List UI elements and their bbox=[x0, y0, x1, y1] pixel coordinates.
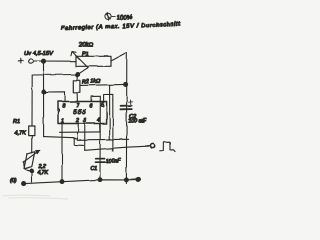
plus terminal sign bbox=[18, 58, 23, 63]
pin1 wire to ground bbox=[61, 124, 63, 182]
wire H1 pin2 bus bbox=[60, 131, 101, 133]
resistor R1 body bbox=[29, 126, 35, 136]
pin3 wire down bbox=[84, 124, 86, 151]
trimmer wiper tie curve bbox=[24, 162, 32, 172]
wire R1 to trimmer bbox=[31, 136, 33, 153]
pin5 rail down bbox=[112, 94, 114, 151]
wire output run bbox=[85, 146, 151, 150]
ground rail end dot bbox=[136, 177, 140, 181]
svg-text:6: 6 bbox=[90, 104, 93, 110]
node trimmer junction bbox=[30, 169, 34, 173]
svg-text:4: 4 bbox=[97, 118, 100, 124]
node ground-C2 junction bbox=[125, 178, 129, 182]
output terminal circle bbox=[151, 144, 155, 148]
wire R2 node to right rail bbox=[81, 84, 126, 85]
svg-text:100nF: 100nF bbox=[106, 159, 122, 165]
wire H2 lower bus bbox=[76, 132, 78, 139]
ground terminal dot bbox=[22, 182, 26, 186]
svg-text:4,7K: 4,7K bbox=[38, 170, 49, 176]
capacitor C2 plus mark bbox=[129, 100, 133, 104]
wire wiper node left bbox=[32, 74, 77, 77]
wire + to pot bbox=[33, 60, 76, 62]
svg-text:555: 555 bbox=[73, 109, 86, 116]
potentiometer wiper arrow bbox=[71, 52, 88, 68]
svg-text:8: 8 bbox=[63, 104, 66, 110]
node A junction bbox=[42, 59, 46, 63]
wire R2 to pin7 bbox=[76, 92, 78, 101]
svg-text:20kΩ: 20kΩ bbox=[78, 43, 94, 49]
wire trimmer to ground rail bbox=[31, 171, 33, 182]
svg-text:100%: 100% bbox=[116, 14, 133, 22]
capacitor C1 plates bbox=[96, 159, 105, 163]
node D junction on right rail bbox=[124, 82, 128, 86]
node ground-pin1 junction bbox=[60, 180, 64, 184]
svg-text:5: 5 bbox=[101, 103, 104, 109]
wire discharge rail down bbox=[109, 85, 111, 140]
wire left rail R1 branch down bbox=[31, 75, 33, 126]
pin6 tick and elbow to C1 rail bbox=[92, 96, 101, 101]
resistor R2 body bbox=[73, 80, 80, 92]
wire Vcc rail elbow to lower bus bbox=[44, 137, 77, 139]
node C wiper junction bbox=[76, 73, 80, 77]
wire node C to R2 bbox=[76, 75, 79, 81]
C1 rail down bbox=[99, 96, 101, 179]
node B junction pin8 branch bbox=[42, 90, 46, 94]
right rail wire down bbox=[125, 53, 127, 184]
pin2 tick bbox=[77, 124, 79, 133]
wire small jog bbox=[74, 138, 83, 145]
trimmer R2 body bbox=[24, 152, 35, 169]
wire Vcc left rail down bbox=[43, 61, 45, 136]
input terminal circle bbox=[29, 59, 33, 63]
node ground-C1 junction bbox=[98, 178, 102, 182]
IC notch bbox=[58, 109, 60, 114]
wire pot right to right rail bbox=[111, 53, 127, 61]
square wave symbol bbox=[160, 142, 175, 152]
wire wiper to node C bbox=[78, 68, 88, 75]
svg-text:100 mF: 100 mF bbox=[129, 119, 147, 125]
capacitor C2 plates bbox=[120, 106, 131, 110]
wire pin8 branch bbox=[44, 92, 65, 102]
ground rail bbox=[25, 179, 138, 183]
pin5 tick and elbow bbox=[104, 94, 113, 101]
bottom-left scan smudge bbox=[2, 195, 68, 199]
trimmer arrow bbox=[24, 150, 40, 162]
IC 555 body bbox=[58, 102, 107, 124]
svg-text:Uv 4,5-15V: Uv 4,5-15V bbox=[24, 51, 54, 57]
svg-text:(0): (0) bbox=[10, 178, 17, 184]
svg-text:C1: C1 bbox=[91, 166, 98, 172]
svg-text:R2 1kΩ: R2 1kΩ bbox=[82, 79, 100, 86]
svg-text:4,7K: 4,7K bbox=[15, 131, 27, 137]
svg-text:R1: R1 bbox=[13, 119, 20, 125]
pin4 tick bbox=[99, 124, 101, 132]
potentiometer P1 body bbox=[76, 56, 111, 66]
annotation dial icon 100% bbox=[105, 12, 133, 21]
